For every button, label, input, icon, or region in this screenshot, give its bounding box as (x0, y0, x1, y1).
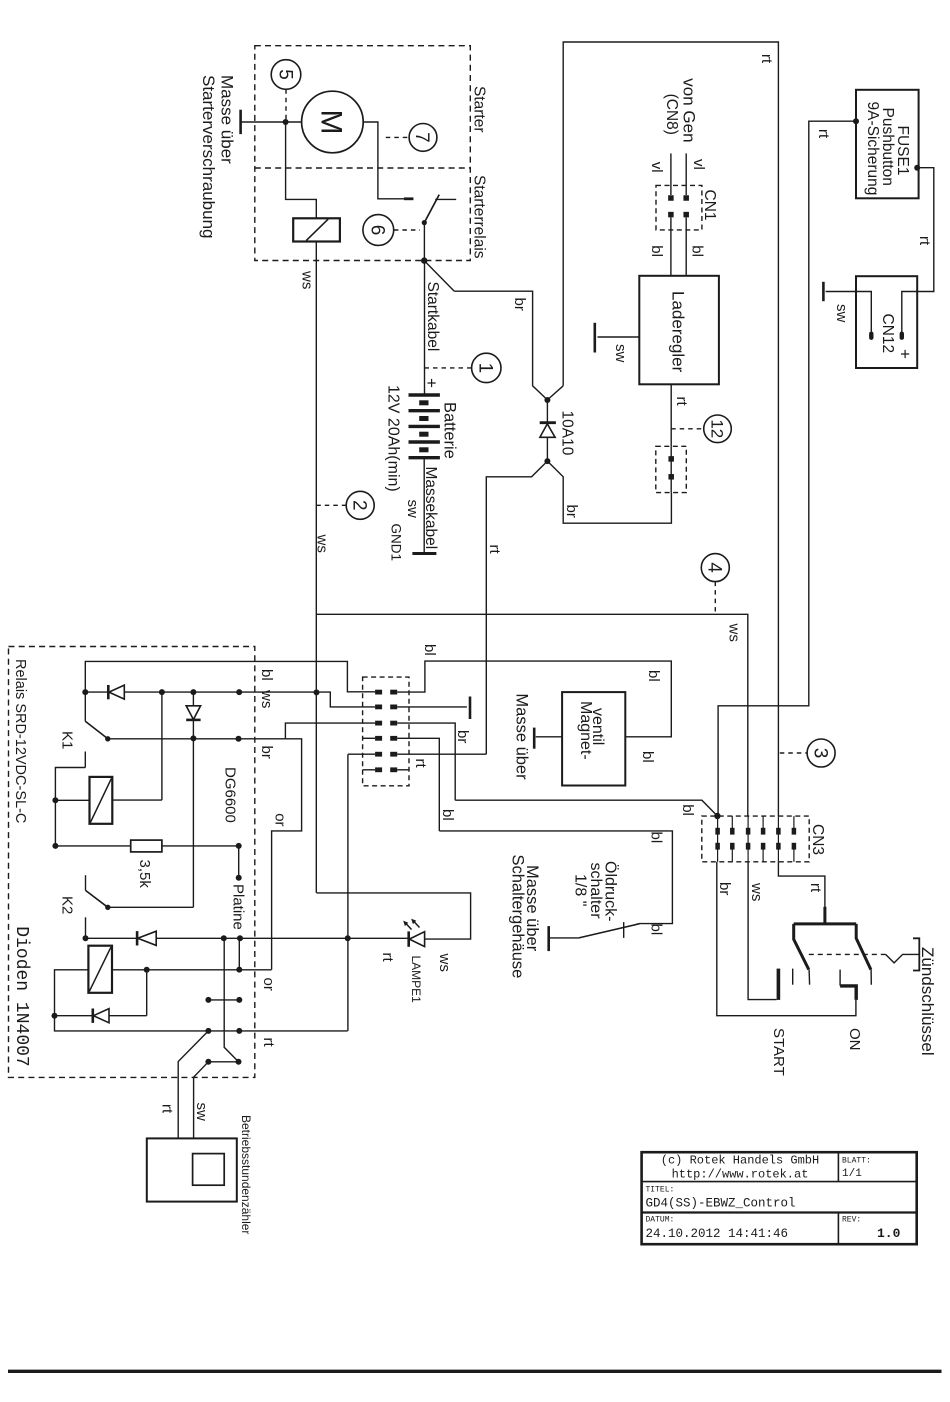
svg-text:DATUM:: DATUM: (646, 1216, 675, 1225)
svg-text:bl: bl (439, 809, 456, 821)
svg-text:rt: rt (673, 397, 690, 407)
wire ws starter coil down (315, 242, 317, 893)
wire K2 blade row (108, 906, 194, 908)
svg-text:Relais SRD-12VDC-SL-C: Relais SRD-12VDC-SL-C (12, 659, 28, 823)
box Magnetventil (562, 692, 625, 785)
svg-text:Starterrelais: Starterrelais (471, 175, 488, 259)
svg-text:rt: rt (807, 883, 824, 893)
contact tick (839, 970, 841, 986)
X1 row5 right pin (390, 752, 397, 757)
svg-text:Platine: Platine (230, 884, 247, 930)
svg-text:rt: rt (379, 953, 396, 963)
svg-text:12V 20Ah(min): 12V 20Ah(min) (385, 385, 402, 492)
wire br row3 right (397, 723, 455, 800)
pin stub (238, 846, 240, 878)
svg-text:vl: vl (690, 159, 707, 170)
svg-text:CN1: CN1 (701, 190, 718, 221)
title row divider 2 (642, 1211, 917, 1213)
svg-text:Laderegler: Laderegler (669, 291, 688, 373)
svg-text:+: + (896, 349, 915, 359)
svg-text:vl: vl (648, 162, 665, 173)
switch K1 blade (85, 721, 108, 739)
box CN12 (856, 276, 917, 368)
svg-text:ws: ws (436, 953, 453, 972)
CN3 col2 top stub (731, 816, 733, 829)
battery plate long 3 (409, 425, 440, 428)
svg-text:3,5k: 3,5k (136, 860, 153, 889)
svg-text:(c) Rotek Handels GmbH: (c) Rotek Handels GmbH (661, 1154, 819, 1168)
wire motor to switch (363, 122, 413, 199)
X1 row4 right pin (390, 736, 397, 741)
svg-text:ws: ws (314, 534, 331, 553)
wire bus merge diagonal (547, 386, 563, 400)
svg-text:GND1: GND1 (389, 524, 404, 562)
wire D4 left (55, 1015, 93, 1017)
wire coil K1 right riser (161, 692, 163, 800)
wire bl to oil switch (439, 831, 672, 924)
ignition input terminal (823, 907, 826, 924)
wire br to CN3 (455, 800, 717, 816)
ground Masse ueber Starterverschraubung (239, 110, 242, 134)
svg-text:br: br (511, 298, 528, 311)
svg-text:bl: bl (648, 924, 665, 936)
wire D4 right (109, 1015, 147, 1017)
pin dot (236, 689, 242, 695)
wire to relay coil (286, 122, 317, 218)
junction dot at motor ground (283, 119, 289, 125)
svg-text:TITEL:: TITEL: (646, 1186, 675, 1195)
wire ws segment (85, 691, 107, 693)
wire row A (156, 937, 348, 939)
svg-text:Startkabel: Startkabel (424, 282, 441, 352)
svg-text:rt: rt (758, 54, 775, 64)
junction dot diode bottom (544, 458, 550, 464)
pin dot (221, 935, 227, 941)
divider between Starter and Starterrelais (255, 167, 470, 169)
K1 alternate contact stub (84, 752, 86, 768)
conn pin 2 (668, 474, 674, 480)
CN3 col2 lower pin (730, 843, 735, 850)
svg-text:9A-Sicherung: 9A-Sicherung (864, 102, 881, 196)
wire D2 bottom (192, 720, 194, 907)
junction dot K2 lower (83, 935, 89, 941)
svg-text:rt: rt (159, 1104, 176, 1114)
LED arrow 2 (413, 921, 420, 928)
wire bl top (85, 661, 375, 692)
wire rt FUSE1 to CN3 (718, 121, 856, 816)
X1 row5 left pin (375, 752, 382, 757)
svg-text:rt: rt (486, 545, 503, 555)
node 6 circle (363, 215, 394, 246)
wire resistor line (55, 845, 130, 847)
connector X1 (dashed) (363, 677, 409, 786)
wire D2 top (192, 692, 194, 706)
wire through connector (670, 446, 672, 492)
svg-text:24.10.2012 14:41:46: 24.10.2012 14:41:46 (646, 1227, 789, 1241)
svg-text:br: br (716, 882, 733, 895)
svg-text:Masse über: Masse über (218, 75, 237, 164)
box Betriebsstundenzaehler (147, 1138, 237, 1201)
box Laderegler (639, 276, 719, 385)
junction dot CN3 pin1 (714, 813, 720, 819)
box FUSE1 (856, 90, 919, 199)
ignition right blade (856, 924, 871, 970)
oil switch blade (579, 923, 641, 938)
X1 row1 right pin (390, 690, 397, 695)
wire bl row1 right (397, 661, 671, 737)
svg-text:M: M (315, 110, 348, 135)
svg-text:rt: rt (916, 236, 933, 246)
node 4 dashed leader (714, 582, 716, 612)
wire sw ground to pin (826, 292, 872, 332)
pin stub (208, 1061, 238, 1063)
wire ws below CN3 (748, 862, 776, 1000)
wire br (454, 291, 547, 400)
ground bar CN12 (822, 282, 825, 301)
svg-text:Schaltergehäuse: Schaltergehäuse (509, 855, 527, 979)
wire bl left (670, 217, 672, 275)
node 1 dashed leader (425, 367, 472, 369)
battery plate long 1 (409, 393, 440, 396)
wire rt to counter (178, 1031, 208, 1139)
CN3 col2 upper pin (730, 828, 735, 835)
wire coil K1 left (55, 799, 89, 801)
CN3 col1 through line (717, 816, 719, 862)
connector CN3 (dashed) (702, 816, 809, 862)
pin dot (236, 967, 242, 973)
wire row A (86, 937, 138, 939)
svg-text:ws: ws (748, 882, 765, 901)
svg-text:Batterie: Batterie (441, 402, 459, 459)
wire Massekabel (423, 458, 425, 554)
X1 row6 left stub (363, 769, 376, 771)
X1 row6 right stub (397, 769, 409, 771)
mech zigzag (886, 954, 920, 963)
diode D1 bar (107, 685, 110, 699)
START contact bar (777, 969, 781, 1000)
starter relay coil diagonal (306, 219, 328, 240)
node 12 dashed leader (671, 428, 702, 430)
title col divider top (837, 1152, 839, 1181)
svg-text:REV:: REV: (842, 1216, 861, 1225)
svg-text:bl: bl (258, 669, 275, 681)
svg-text:sw: sw (193, 1103, 210, 1122)
CN3 col5 through line (777, 816, 779, 862)
LED cathode bar (407, 931, 410, 946)
battery plate long 5 (409, 456, 440, 459)
svg-text:bl: bl (648, 832, 665, 844)
ground bar (593, 323, 596, 353)
ignition rotor bar (794, 922, 857, 925)
CN3 col5 upper pin (776, 828, 781, 835)
svg-text:Zündschlüssel: Zündschlüssel (918, 947, 937, 1056)
LED arrow 1 (405, 923, 412, 930)
CN1 pin 4 (683, 212, 689, 218)
svg-text:(CN8): (CN8) (663, 94, 680, 135)
CN3 col3 upper pin (746, 828, 751, 835)
CN3 col6 top stub (793, 816, 795, 829)
svg-text:rt: rt (412, 759, 429, 769)
X1 row6 left pin (375, 767, 382, 772)
svg-text:ws: ws (258, 689, 275, 708)
resistor 3,5k (131, 840, 162, 852)
wire rt Laderegler down (670, 384, 672, 446)
pin dot (237, 935, 243, 941)
X1 row3 left pin (375, 721, 382, 726)
title row divider 1 (642, 1181, 917, 1183)
wire LED left (348, 937, 409, 939)
enclosure Relais (dashed) (9, 647, 255, 1078)
X1 row5 left wire (348, 753, 375, 755)
X1 row1 left pin (375, 690, 382, 695)
svg-text:Betriebsstundenzähler: Betriebsstundenzähler (239, 1115, 253, 1234)
junction dot (159, 689, 165, 695)
svg-text:br: br (563, 505, 580, 518)
svg-text:bl: bl (421, 644, 438, 656)
svg-text:DG6600: DG6600 (222, 767, 239, 823)
wire resistor to pin (162, 845, 239, 847)
node 2 circle (346, 491, 374, 519)
wire vl right (685, 153, 687, 195)
battery plate short 2 (419, 416, 428, 421)
junction dot at box edge (421, 257, 427, 263)
svg-text:GD4(SS)-EBWZ_Control: GD4(SS)-EBWZ_Control (646, 1197, 796, 1211)
diode D2 bar (186, 719, 200, 722)
ignition left blade tip (808, 970, 811, 985)
junction dot (52, 843, 58, 849)
svg-text:sw: sw (404, 500, 421, 519)
battery plate long 4 (409, 440, 440, 443)
relay coil K1 (90, 777, 113, 824)
node 3 dashed leader (780, 752, 807, 754)
junction dot LED (345, 935, 351, 941)
wire diode top (546, 400, 548, 423)
wire rt FUSE1 to CN12 (902, 168, 934, 332)
ignition left blade (794, 924, 809, 970)
ignition right blade tip (870, 970, 872, 985)
wire K1stub to resistor (54, 800, 56, 846)
svg-text:START: START (770, 1028, 787, 1076)
wire rt to board (486, 461, 547, 754)
switch fixed side (435, 198, 456, 200)
svg-text:or: or (272, 813, 289, 826)
CN3 col3 lower pin (746, 843, 751, 850)
wire coil K2 left (55, 970, 89, 1016)
wire br row (108, 738, 286, 740)
battery plate short 3 (419, 432, 428, 437)
K2 lower stub (85, 917, 87, 938)
battery plate short 4 (419, 447, 428, 452)
diode D3 bar (136, 931, 139, 945)
junction dot (52, 1013, 58, 1019)
pin stub (208, 999, 239, 1001)
node 5 circle (271, 60, 301, 90)
key bracket (913, 938, 919, 970)
node 12 circle (704, 415, 732, 443)
CN12 pin left (869, 332, 873, 340)
relay coil K2 diagonal (89, 947, 111, 991)
svg-text:bl: bl (688, 245, 705, 257)
connector CN1 (dashed) (656, 185, 702, 230)
svg-text:Masse über: Masse über (513, 693, 531, 780)
wire LED right (317, 893, 471, 939)
wire ws segment (124, 692, 375, 707)
switch pivot dot (422, 220, 427, 225)
motor M circle (302, 91, 364, 153)
svg-text:or: or (260, 978, 277, 991)
wire rt row5 left down (347, 754, 349, 1031)
title col divider bottom (837, 1213, 839, 1245)
wire to ground (549, 937, 579, 939)
relay coil K1 diagonal (90, 778, 111, 822)
CN1 pin 3 (668, 212, 674, 218)
ON contact (840, 986, 856, 1000)
wire rt row D (55, 1016, 348, 1031)
svg-text:CN3: CN3 (809, 824, 826, 855)
pin dot (236, 875, 242, 881)
svg-text:von Gen: von Gen (680, 78, 699, 142)
CN3 col1 upper pin (715, 828, 720, 835)
node 6 dashed leader (394, 229, 420, 231)
junction dot (190, 689, 196, 695)
svg-text:1.0: 1.0 (877, 1226, 901, 1241)
wire sw to counter (194, 1062, 209, 1139)
node 7 dashed leader (386, 136, 409, 138)
battery plate short 1 (419, 400, 428, 405)
CN3 col6 upper pin (792, 828, 797, 835)
wire br below CN3 (717, 862, 856, 1016)
pin dot (236, 1059, 242, 1065)
node 3 circle (807, 739, 835, 767)
page bottom border (8, 1370, 942, 1373)
wire bl row4 right (397, 738, 439, 831)
svg-text:1/1: 1/1 (842, 1168, 862, 1180)
svg-text:bl: bl (648, 245, 665, 257)
CN3 col4 top stub (762, 816, 764, 829)
svg-text:br: br (258, 746, 275, 759)
node 2 dashed leader (316, 504, 346, 506)
ground bar (469, 697, 472, 720)
svg-text:Starterverschraubung: Starterverschraubung (199, 75, 218, 238)
wire pivot down (423, 223, 425, 261)
node 5 dashed leader (285, 89, 287, 122)
svg-text:6: 6 (367, 225, 388, 236)
svg-text:LAMPE1: LAMPE1 (409, 956, 423, 1004)
pin stub vertical (224, 938, 238, 1062)
junction dot bl/ws (82, 689, 88, 695)
CN3 col6 bottom stub (793, 849, 795, 862)
junction dot (144, 967, 150, 973)
svg-text:ws: ws (726, 623, 743, 642)
pin dot (205, 997, 211, 1003)
connector (dashed) below Laderegler (656, 446, 687, 492)
CN3 col1 lower pin (715, 843, 720, 850)
X1 row6 right pin (390, 767, 397, 772)
svg-text:ON: ON (846, 1028, 863, 1051)
svg-text:Dioden 1N4007: Dioden 1N4007 (11, 926, 31, 1066)
svg-text:http://www.rotek.at: http://www.rotek.at (672, 1168, 809, 1182)
junction dot diode top (544, 397, 550, 403)
svg-text:BLATT:: BLATT: (842, 1157, 871, 1166)
switch K2 blade (86, 890, 108, 907)
diode 10A10 triangle (540, 424, 555, 437)
svg-text:K1: K1 (59, 731, 76, 749)
wire ws to CN3 (316, 614, 748, 816)
diode D4 triangle (93, 1009, 109, 1023)
meter window (193, 1154, 225, 1186)
svg-text:12: 12 (707, 419, 726, 438)
wire or loop (272, 739, 302, 970)
junction dot ws vertical (314, 689, 320, 695)
svg-text:br: br (454, 730, 471, 743)
node 4 circle (701, 554, 729, 582)
diode D1 triangle (109, 685, 124, 699)
diode D4 bar (92, 1009, 95, 1023)
CN1 pin 2 (683, 195, 689, 201)
wire K1 stub to coil (55, 768, 85, 801)
X1 row2 left pin (375, 705, 382, 710)
mech dashed link (809, 953, 886, 955)
wire Startkabel (424, 261, 426, 395)
wire row2 to ground (397, 706, 467, 708)
X1 row4 left pin (375, 736, 382, 741)
X1 row3 right pin (390, 721, 397, 726)
svg-text:sw: sw (612, 344, 629, 363)
junction dot FUSE1 left (853, 118, 859, 124)
svg-text:1: 1 (475, 363, 496, 374)
pin dot (236, 736, 242, 742)
svg-text:bl: bl (639, 751, 656, 763)
pin stub (238, 938, 240, 969)
svg-text:7: 7 (411, 132, 432, 143)
svg-text:Massekabel: Massekabel (422, 467, 439, 550)
CN3 col3 through line (747, 816, 749, 862)
node 1 circle (472, 353, 501, 382)
wire br to CN12-conn (547, 461, 671, 523)
wire row B (112, 969, 272, 971)
svg-text:5: 5 (274, 69, 295, 80)
battery plate long 2 (409, 409, 440, 412)
pin dot (236, 1028, 242, 1034)
ground GND1 bar (412, 552, 436, 555)
wire Startkabel diagonal (424, 261, 454, 292)
switch blade (424, 195, 439, 223)
enclosure Starter/Starterrelais (dashed) (255, 46, 470, 261)
svg-text:rt: rt (815, 129, 832, 139)
wire Laderegler ground (598, 336, 640, 338)
svg-text:1/8 ": 1/8 " (572, 874, 589, 906)
diode D3 triangle (138, 931, 157, 945)
junction dot K2 blade (105, 905, 110, 910)
svg-text:Starter: Starter (471, 86, 488, 133)
diode D2 triangle (186, 706, 200, 720)
wire Magnetventil ground (536, 736, 562, 738)
svg-text:4: 4 (704, 562, 725, 573)
svg-text:rt: rt (260, 1038, 277, 1048)
svg-text:bl: bl (645, 670, 662, 682)
oil switch contact tick (623, 922, 625, 938)
wire rt top bus (563, 42, 778, 816)
CN1 pin 1 (668, 195, 674, 201)
wire K1 common (84, 692, 86, 721)
ground bar (533, 728, 536, 749)
wire bl right (685, 217, 687, 275)
wire ground to motor (241, 121, 302, 123)
wire diode bottom (546, 437, 548, 461)
svg-text:bl: bl (679, 804, 696, 816)
starter relay coil (293, 218, 340, 241)
junction dot D2 (190, 735, 196, 741)
